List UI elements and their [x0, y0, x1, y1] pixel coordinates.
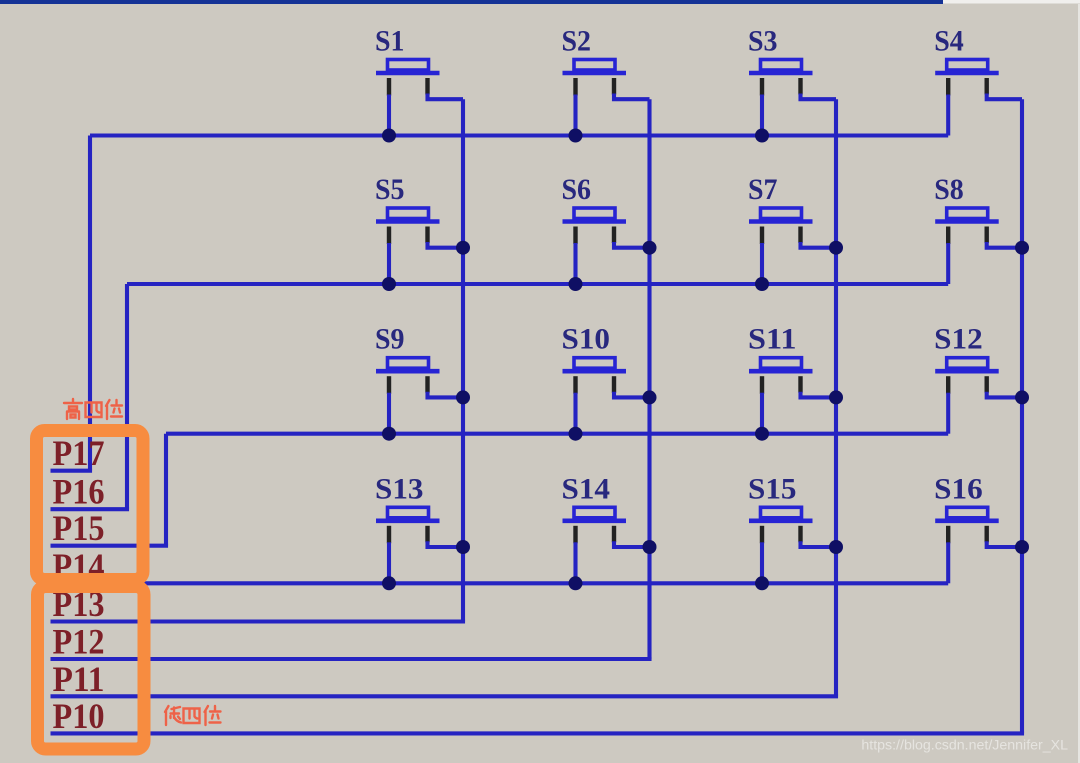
- svg-text:S8: S8: [934, 173, 964, 206]
- push button S12: [934, 323, 999, 394]
- svg-text:S11: S11: [748, 323, 797, 356]
- wire row 4 net P14: [51, 581, 949, 585]
- push button S7: [748, 173, 813, 244]
- svg-text:S15: S15: [748, 472, 797, 505]
- push button S14: [562, 472, 627, 543]
- push button S8: [934, 173, 999, 244]
- junction S12 column 4: [1015, 390, 1029, 404]
- push button S6: [562, 173, 627, 244]
- push button S3: [748, 25, 813, 96]
- wire column 4 net P10: [51, 99, 1025, 733]
- svg-text:P11: P11: [53, 659, 105, 699]
- pin label P12: [53, 622, 105, 662]
- wire S13 left pin to row 4: [387, 542, 391, 583]
- push button S16: [934, 472, 999, 543]
- wire S14 left pin to row 4: [573, 542, 577, 583]
- wire S15 right pin to column 3: [801, 541, 837, 547]
- svg-text:S4: S4: [934, 25, 964, 58]
- wire S3 right pin to column 3: [801, 94, 837, 100]
- junction S7 row 2: [755, 277, 769, 291]
- svg-text:S12: S12: [934, 323, 983, 356]
- annotation low nibble (di si wei): [165, 706, 221, 725]
- svg-text:P15: P15: [53, 508, 105, 548]
- pin label P14: [53, 546, 105, 586]
- wire S11 right pin to column 3: [801, 392, 837, 398]
- wire S11 left pin to row 3: [760, 393, 764, 434]
- svg-text:S10: S10: [562, 323, 611, 356]
- push button S4: [934, 25, 999, 96]
- watermark: [861, 738, 1068, 754]
- pin label P16: [53, 472, 105, 512]
- svg-text:P10: P10: [53, 696, 105, 736]
- wire S16 right pin to column 4: [987, 541, 1022, 547]
- wire S8 left pin to row 2: [946, 243, 950, 284]
- junction S14 row 4: [569, 576, 583, 590]
- pin label P15: [53, 508, 105, 548]
- push button S13: [375, 472, 440, 543]
- wire column 1 net P13: [51, 99, 466, 621]
- wire S6 right pin to column 2: [614, 242, 650, 248]
- wire S3 left pin to row 1: [760, 95, 764, 136]
- junction S15 row 4: [755, 576, 769, 590]
- junction S9 row 3: [382, 427, 396, 441]
- pin label P10: [53, 696, 105, 736]
- wire S8 right pin to column 4: [987, 242, 1022, 248]
- wire S5 left pin to row 2: [387, 243, 391, 284]
- junction S10 row 3: [569, 427, 583, 441]
- wire S6 left pin to row 2: [573, 243, 577, 284]
- junction S13 row 4: [382, 576, 396, 590]
- svg-text:S3: S3: [748, 25, 778, 58]
- wire S7 right pin to column 3: [801, 242, 837, 248]
- junction S15 column 3: [829, 540, 843, 554]
- push button S15: [748, 472, 813, 543]
- junction S11 row 3: [755, 427, 769, 441]
- wire S10 left pin to row 3: [573, 393, 577, 434]
- wire column 2 net P12: [51, 99, 652, 659]
- wire S9 right pin to column 1: [428, 392, 464, 398]
- svg-text:P12: P12: [53, 622, 105, 662]
- wire S1 right pin to column 1: [428, 94, 464, 100]
- svg-text:S6: S6: [562, 173, 592, 206]
- push button S1: [375, 25, 440, 96]
- pin label P13: [53, 584, 105, 624]
- svg-text:S13: S13: [375, 472, 424, 505]
- junction S6 column 2: [643, 241, 657, 255]
- wire S5 right pin to column 1: [428, 242, 464, 248]
- junction S8 column 4: [1015, 241, 1029, 255]
- wire S4 left pin to row 1: [946, 95, 950, 136]
- wire S10 right pin to column 2: [614, 392, 650, 398]
- junction S5 column 1: [456, 241, 470, 255]
- junction S3 row 1: [755, 129, 769, 143]
- junction S14 column 2: [643, 540, 657, 554]
- wire S4 right pin to column 4: [987, 94, 1022, 100]
- svg-text:S7: S7: [748, 173, 778, 206]
- wire row 3 net P15: [51, 434, 949, 546]
- svg-text:S16: S16: [934, 472, 983, 505]
- svg-text:S2: S2: [562, 25, 592, 58]
- svg-text:S1: S1: [375, 25, 405, 58]
- right edge light strip: [1078, 4, 1080, 763]
- junction S1 row 1: [382, 129, 396, 143]
- wire S12 right pin to column 4: [987, 392, 1022, 398]
- push button S9: [375, 323, 440, 394]
- push button S11: [748, 323, 813, 394]
- junction S13 column 1: [456, 540, 470, 554]
- wire S2 right pin to column 2: [614, 94, 650, 100]
- junction S16 column 4: [1015, 540, 1029, 554]
- wire S13 right pin to column 1: [428, 541, 464, 547]
- wire S12 left pin to row 3: [946, 393, 950, 434]
- svg-text:https://blog.csdn.net/Jennifer: https://blog.csdn.net/Jennifer_XL: [861, 738, 1068, 754]
- wire S15 left pin to row 4: [760, 542, 764, 583]
- junction S9 column 1: [456, 390, 470, 404]
- wire column 3 net P11: [51, 99, 839, 696]
- highlight box low nibble P13-P10: [38, 587, 145, 750]
- wire S1 left pin to row 1: [387, 95, 391, 136]
- push button S5: [375, 173, 440, 244]
- junction S2 row 1: [569, 129, 583, 143]
- svg-text:S5: S5: [375, 173, 405, 206]
- junction S10 column 2: [643, 390, 657, 404]
- junction S7 column 3: [829, 241, 843, 255]
- wire S14 right pin to column 2: [614, 541, 650, 547]
- junction S5 row 2: [382, 277, 396, 291]
- svg-text:P17: P17: [53, 433, 105, 473]
- push button S2: [562, 25, 627, 96]
- wire S2 left pin to row 1: [573, 95, 577, 136]
- push button S10: [562, 323, 627, 394]
- wire row 2 net P16: [51, 284, 949, 509]
- pin label P11: [53, 659, 105, 699]
- svg-text:S9: S9: [375, 323, 405, 356]
- junction S11 column 3: [829, 390, 843, 404]
- wire S9 left pin to row 3: [387, 393, 391, 434]
- svg-text:P16: P16: [53, 472, 105, 512]
- highlight box high nibble P17-P14: [37, 431, 144, 580]
- junction S6 row 2: [569, 277, 583, 291]
- wire S16 left pin to row 4: [946, 542, 950, 583]
- svg-text:S14: S14: [562, 472, 611, 505]
- wire S7 left pin to row 2: [760, 243, 764, 284]
- pin label P17: [53, 433, 105, 473]
- top window title bar: [0, 0, 1080, 4]
- annotation high nibble (gao si wei): [64, 399, 122, 419]
- wire row 1 net P17: [51, 136, 949, 471]
